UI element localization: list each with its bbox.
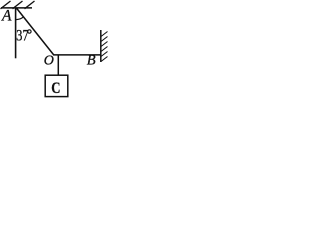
svg-text:A: A <box>1 8 12 25</box>
background <box>0 0 108 101</box>
ceiling hatching <box>1 1 35 9</box>
string OA at 37 degrees <box>16 8 53 55</box>
angle arc <box>16 17 24 20</box>
block C box <box>45 75 68 96</box>
degree symbol <box>28 30 31 33</box>
svg-text:B: B <box>87 53 96 69</box>
string OC (down to block) <box>57 55 59 76</box>
wall hatching <box>101 32 108 62</box>
ceiling line <box>1 7 32 9</box>
wall at B <box>100 30 102 62</box>
plumb line (vertical reference) <box>15 8 17 58</box>
string OB horizontal <box>53 54 101 56</box>
svg-text:O: O <box>44 54 54 69</box>
svg-text:37: 37 <box>16 27 28 45</box>
svg-text:C: C <box>51 80 60 98</box>
